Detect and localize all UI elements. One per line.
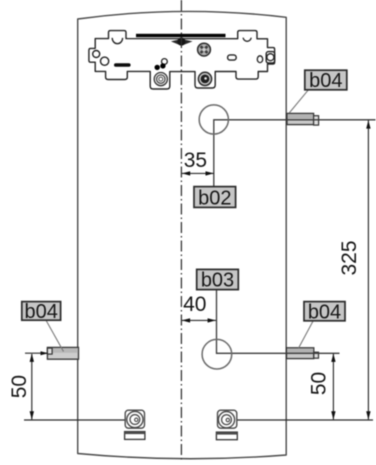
leader line to label b04 left <box>46 320 64 352</box>
cable dots above left grommet <box>155 65 160 70</box>
right foot <box>216 410 237 440</box>
svg-text:b04: b04 <box>308 301 341 323</box>
tank outline <box>78 11 287 458</box>
mounting bracket outline <box>89 31 275 89</box>
svg-text:50: 50 <box>308 372 331 395</box>
left grommet with screw <box>154 73 167 86</box>
dimension 35 <box>182 149 214 176</box>
screw head on bracket <box>198 43 211 56</box>
leader line to label b04 top right <box>289 90 308 113</box>
dimension 40 <box>182 293 216 323</box>
bracket notch under left tab <box>112 38 122 44</box>
keyhole in right protrusion <box>266 52 274 63</box>
floor reference line right <box>226 418 373 422</box>
pipe stub b04 bottom right <box>287 348 319 359</box>
svg-text:50: 50 <box>8 375 31 398</box>
connection b02 elbow line <box>214 120 376 187</box>
cable clip above left grommet <box>162 59 168 65</box>
connection b03 elbow line <box>217 289 340 353</box>
bracket notch under right tab <box>243 38 251 42</box>
label b04 bottom right <box>304 301 345 323</box>
dimension 50 left <box>8 354 34 420</box>
small oval near bracket right end <box>257 56 262 63</box>
floor reference line left <box>24 418 136 422</box>
black slot on bracket left area <box>114 63 131 67</box>
connection b02 circle <box>199 105 228 134</box>
dimension 325 <box>338 120 371 419</box>
dimension 50 right <box>308 354 336 420</box>
svg-text:b03: b03 <box>201 270 234 292</box>
label b04 left <box>22 301 61 323</box>
label b03 <box>197 269 239 291</box>
label b02 <box>194 187 236 210</box>
svg-text:40: 40 <box>183 293 206 316</box>
left foot <box>125 410 145 439</box>
oval slot right of centerline <box>228 55 237 60</box>
svg-text:b04: b04 <box>309 70 342 92</box>
svg-text:b04: b04 <box>25 301 58 323</box>
right grommet with screw <box>198 72 211 85</box>
svg-text:325: 325 <box>338 240 361 275</box>
centerline (vertical dash-dot axis) <box>180 0 182 463</box>
pipe stub b04 left <box>47 347 78 359</box>
svg-text:35: 35 <box>184 149 207 172</box>
small circles on bracket left bump <box>93 51 100 58</box>
leader line to label b04 bottom right <box>299 321 314 348</box>
left 50 dimension stub line <box>25 351 48 355</box>
svg-text:b02: b02 <box>198 187 231 209</box>
connection b03 circle <box>202 339 232 369</box>
pipe stub b04 top right <box>287 113 319 125</box>
label b04 top right <box>305 70 347 92</box>
rail hanger anchor on centerline <box>171 38 193 46</box>
wall mounting rail (thick bar) <box>136 34 226 37</box>
